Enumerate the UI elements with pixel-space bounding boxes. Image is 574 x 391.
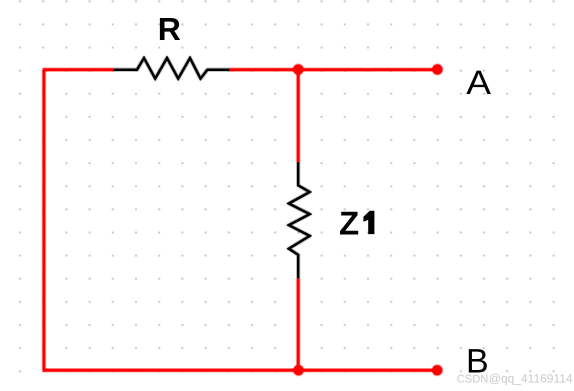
wire top right segment to terminal A xyxy=(229,67,437,72)
impedance Z1 (resistor symbol) xyxy=(289,162,310,278)
svg-text:@qq_41169114: @qq_41169114 xyxy=(489,371,573,385)
terminal A dot xyxy=(431,63,443,75)
svg-text:R: R xyxy=(158,11,181,47)
junction node (bottom, Z1 / B) xyxy=(292,364,304,376)
wire left vertical (B side to R side) xyxy=(42,70,47,371)
svg-text:A: A xyxy=(466,64,491,102)
junction node (top, R / Z1 / A) xyxy=(292,63,304,75)
wire bottom to terminal B xyxy=(43,368,438,373)
wire middle vertical upper segment xyxy=(296,70,301,163)
wire middle vertical lower segment xyxy=(296,278,301,370)
resistor R xyxy=(114,58,230,79)
svg-text:CSDN: CSDN xyxy=(457,373,489,385)
terminal B dot xyxy=(431,364,443,376)
wire top left segment xyxy=(43,67,114,72)
svg-text:Z: Z xyxy=(339,205,359,242)
